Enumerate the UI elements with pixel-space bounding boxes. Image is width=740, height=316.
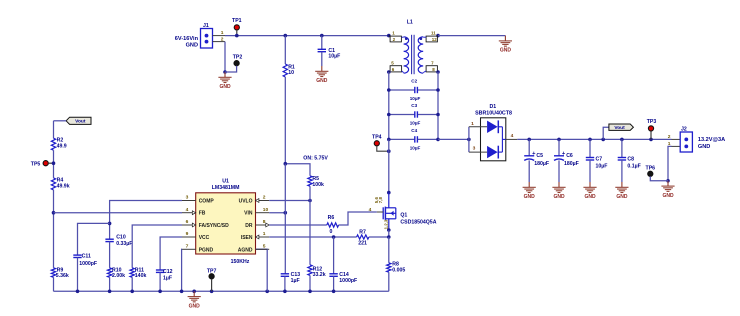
svg-text:U1: U1 — [222, 179, 229, 185]
svg-text:J1: J1 — [203, 23, 209, 29]
svg-text:2.00k: 2.00k — [112, 273, 125, 279]
svg-text:VCC: VCC — [199, 235, 210, 241]
svg-text:8: 8 — [263, 219, 266, 225]
svg-text:GND: GND — [698, 144, 710, 150]
svg-text:GND: GND — [219, 84, 231, 90]
svg-text:2: 2 — [668, 134, 671, 140]
svg-text:3: 3 — [473, 146, 476, 152]
svg-text:C7: C7 — [596, 157, 603, 163]
svg-text:10: 10 — [263, 207, 269, 213]
svg-text:1: 1 — [471, 121, 474, 127]
svg-text:10µF: 10µF — [328, 53, 340, 59]
svg-text:Vout: Vout — [75, 119, 86, 125]
svg-text:GND: GND — [500, 48, 512, 54]
svg-text:C12: C12 — [163, 269, 173, 275]
svg-text:4: 4 — [511, 133, 514, 139]
svg-text:1000pF: 1000pF — [79, 261, 97, 267]
svg-text:R6: R6 — [328, 215, 335, 221]
svg-text:10µF: 10µF — [410, 121, 421, 126]
svg-text:TP7: TP7 — [207, 268, 217, 274]
svg-text:COMP: COMP — [199, 199, 215, 205]
svg-text:11: 11 — [431, 31, 436, 36]
svg-text:LM3481MM: LM3481MM — [212, 185, 240, 191]
svg-text:GND: GND — [189, 303, 201, 309]
svg-text:12: 12 — [432, 37, 438, 42]
svg-text:5: 5 — [263, 243, 266, 249]
svg-text:TP3: TP3 — [647, 119, 657, 125]
svg-text:100k: 100k — [312, 182, 324, 188]
svg-text:5.36k: 5.36k — [56, 273, 69, 279]
svg-text:GND: GND — [553, 194, 565, 200]
svg-text:180µF: 180µF — [564, 161, 579, 167]
svg-text:10µF: 10µF — [410, 96, 421, 101]
svg-text:AGND: AGND — [238, 247, 253, 253]
svg-text:UVLO: UVLO — [239, 199, 253, 205]
svg-text:GND: GND — [616, 194, 628, 200]
svg-text:C3: C3 — [411, 103, 417, 108]
svg-text:TP6: TP6 — [646, 165, 656, 171]
svg-text:GND: GND — [186, 42, 198, 48]
svg-text:7: 7 — [186, 243, 189, 249]
svg-text:TP4: TP4 — [372, 135, 382, 141]
svg-text:1,2,3: 1,2,3 — [383, 219, 388, 229]
svg-text:140k: 140k — [135, 273, 147, 279]
svg-text:7,8: 7,8 — [378, 197, 383, 204]
svg-text:TP5: TP5 — [31, 162, 41, 168]
svg-text:ISEN: ISEN — [241, 235, 253, 241]
svg-text:GND: GND — [662, 193, 674, 199]
svg-text:33.2k: 33.2k — [313, 272, 326, 278]
svg-text:CSD18504Q5A: CSD18504Q5A — [400, 220, 436, 226]
svg-text:49.9: 49.9 — [57, 144, 67, 150]
svg-text:GND: GND — [584, 194, 596, 200]
svg-text:L1: L1 — [407, 19, 413, 25]
svg-text:10µF: 10µF — [596, 163, 608, 169]
svg-text:GND: GND — [524, 194, 536, 200]
svg-text:SBR10U40CT8: SBR10U40CT8 — [475, 110, 512, 116]
svg-text:9: 9 — [186, 231, 189, 237]
svg-text:4: 4 — [186, 207, 189, 213]
svg-text:49.9k: 49.9k — [57, 183, 70, 189]
svg-text:R7: R7 — [359, 229, 366, 235]
svg-text:C4: C4 — [411, 128, 417, 133]
svg-text:10: 10 — [288, 70, 294, 76]
svg-text:C11: C11 — [82, 254, 91, 260]
svg-text:2: 2 — [221, 36, 224, 42]
svg-text:VIN: VIN — [244, 211, 253, 217]
svg-text:C2: C2 — [411, 78, 417, 83]
svg-text:C10: C10 — [116, 234, 126, 240]
svg-text:D1: D1 — [489, 104, 496, 110]
svg-text:1: 1 — [263, 231, 266, 237]
svg-text:ON: 5.75V: ON: 5.75V — [303, 155, 328, 161]
svg-text:DR: DR — [245, 223, 253, 229]
svg-text:4: 4 — [369, 207, 372, 213]
svg-text:180µF: 180µF — [534, 161, 549, 167]
svg-text:Vout: Vout — [614, 125, 625, 131]
svg-text:C6: C6 — [566, 153, 573, 159]
svg-text:0.005: 0.005 — [392, 268, 405, 274]
svg-text:13.2V@3A: 13.2V@3A — [698, 137, 725, 143]
svg-text:FB: FB — [199, 211, 206, 217]
svg-text:0.33µF: 0.33µF — [116, 241, 132, 247]
svg-text:Q1: Q1 — [400, 212, 407, 218]
svg-text:0.1µF: 0.1µF — [627, 163, 640, 169]
svg-text:2: 2 — [263, 195, 266, 201]
svg-text:221: 221 — [358, 241, 367, 247]
svg-text:GND: GND — [316, 78, 328, 84]
svg-text:FA/SYNC/SD: FA/SYNC/SD — [199, 223, 229, 229]
svg-text:PGND: PGND — [199, 247, 214, 253]
svg-text:J2: J2 — [681, 126, 687, 132]
svg-text:0: 0 — [330, 229, 333, 235]
svg-text:1µF: 1µF — [163, 275, 172, 281]
svg-text:1µF: 1µF — [291, 278, 300, 284]
svg-text:C5: C5 — [536, 153, 543, 159]
svg-text:1: 1 — [221, 30, 224, 36]
svg-text:TP2: TP2 — [233, 55, 243, 61]
svg-text:1000pF: 1000pF — [339, 278, 357, 284]
svg-text:3: 3 — [186, 195, 189, 201]
svg-text:C8: C8 — [627, 157, 634, 163]
svg-text:TP1: TP1 — [232, 18, 242, 24]
svg-text:10µF: 10µF — [410, 146, 421, 151]
svg-text:150KHz: 150KHz — [231, 259, 250, 265]
svg-text:6: 6 — [186, 219, 189, 225]
svg-text:6V-16Vin: 6V-16Vin — [175, 36, 199, 42]
